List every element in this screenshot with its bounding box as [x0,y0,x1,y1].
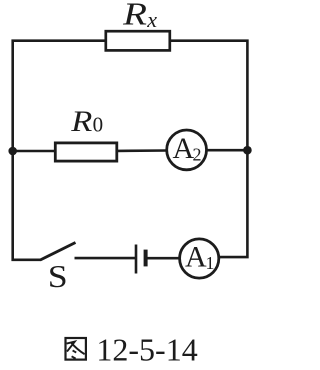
battery long plate [135,245,138,274]
ammeter A1 [180,239,219,278]
resistor R0 box [55,143,117,161]
svg-text:A: A [185,240,207,273]
wire middle branch between R0 and A2 [117,149,167,152]
svg-text:R: R [70,104,92,137]
wire switch right contact to battery [75,257,137,260]
ammeter A2 [167,130,207,170]
svg-text:A: A [173,132,195,165]
svg-text:12-5-14: 12-5-14 [96,332,197,368]
wire middle branch left segment [13,150,56,153]
svg-text:1: 1 [206,253,215,273]
resistor Rx box [106,31,170,50]
wire top-right corner and right side down to bottom-right corner [170,41,247,257]
caption character tu (figure) drawn as strokes [66,338,86,360]
node left junction dot [8,147,17,156]
svg-text:0: 0 [93,113,104,137]
node right junction dot [243,146,252,155]
wire middle branch between A2 and right node [206,149,247,152]
battery short thick plate [144,250,148,267]
svg-text:R: R [122,0,147,31]
svg-text:2: 2 [193,145,202,165]
svg-text:x: x [146,7,157,32]
switch S blade [40,243,75,261]
wire battery to A1 [148,257,181,260]
wire top and left side with bottom-left corner [13,41,106,260]
svg-text:S: S [48,260,68,295]
